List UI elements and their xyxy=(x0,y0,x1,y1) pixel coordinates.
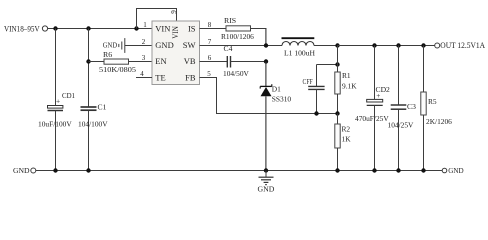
svg-text:104/25V: 104/25V xyxy=(388,120,415,129)
svg-text:FB: FB xyxy=(185,72,196,82)
capacitor CD1 10uF/100V xyxy=(38,29,75,171)
node junction SW at x266 xyxy=(264,43,268,47)
svg-text:SW: SW xyxy=(183,40,196,50)
node junction bottom rail diode/ground xyxy=(264,168,268,172)
svg-text:IS: IS xyxy=(188,23,196,33)
diode D1 SS310 xyxy=(260,84,291,170)
svg-text:5: 5 xyxy=(207,70,211,78)
svg-text:R2: R2 xyxy=(342,125,351,134)
svg-text:8: 8 xyxy=(208,21,212,29)
node junction out rail C3 xyxy=(396,43,400,47)
resistor RIS R100/1206 xyxy=(200,16,267,41)
inductor L1 100uH xyxy=(282,38,338,57)
svg-text:RIS: RIS xyxy=(224,16,236,25)
node junction bottom rail C3 xyxy=(396,168,400,172)
node junction FB divider xyxy=(335,111,339,115)
node junction bottom rail R5 xyxy=(421,168,425,172)
wire CFF top connection xyxy=(317,64,338,66)
svg-text:GND: GND xyxy=(448,166,464,175)
svg-text:9: 9 xyxy=(170,10,178,14)
ground symbol center xyxy=(258,171,275,194)
ground symbol at pin 2 (GND power port, sideways) xyxy=(103,38,152,53)
resistor R2 1K xyxy=(335,114,351,171)
node junction out rail R5 xyxy=(421,43,425,47)
svg-text:1: 1 xyxy=(143,21,147,29)
resistor R5 2K/1206 xyxy=(421,46,452,171)
svg-text:7: 7 xyxy=(208,38,212,46)
capacitor C3 104/25V xyxy=(388,46,417,171)
svg-text:2K/1206: 2K/1206 xyxy=(426,117,452,126)
resistor R1 9.1K xyxy=(335,46,357,114)
node junction top rail at CD1 xyxy=(53,26,57,30)
svg-text:R100/1206: R100/1206 xyxy=(221,32,254,41)
node junction CFF bottom on FB line xyxy=(314,111,318,115)
node junction bottom rail CD1 xyxy=(53,168,57,172)
node junction output of L1 xyxy=(335,43,339,47)
node OUT terminal xyxy=(435,41,485,50)
svg-text:2: 2 xyxy=(142,38,146,46)
wire output rail xyxy=(338,45,435,47)
svg-text:9.1K: 9.1K xyxy=(342,82,357,91)
capacitor C1 104/100V xyxy=(78,29,108,171)
svg-text:3: 3 xyxy=(142,54,146,62)
capacitor CD2 470uF/25V xyxy=(355,46,390,171)
wire pin 9 branch xyxy=(137,9,177,29)
node GND left terminal xyxy=(13,166,36,175)
svg-text:OUT 12.5V1A: OUT 12.5V1A xyxy=(440,41,485,50)
svg-text:TE: TE xyxy=(155,72,165,82)
svg-text:R5: R5 xyxy=(428,97,437,106)
svg-text:L1 100uH: L1 100uH xyxy=(284,49,316,58)
svg-text:104/100V: 104/100V xyxy=(78,120,108,129)
node junction VB-C4 at x266 xyxy=(264,59,268,63)
svg-text:1K: 1K xyxy=(342,134,352,143)
svg-text:R1: R1 xyxy=(342,71,351,80)
svg-text:GND: GND xyxy=(155,40,173,50)
svg-text:VIN: VIN xyxy=(155,23,170,33)
op-amp U1 regulator IC body xyxy=(152,21,200,85)
svg-text:VIN18–95V: VIN18–95V xyxy=(4,24,40,33)
svg-text:C4: C4 xyxy=(224,44,233,53)
svg-text:104/50V: 104/50V xyxy=(223,69,250,78)
resistor R6 510K/0805 xyxy=(89,50,153,74)
capacitor CFF xyxy=(303,65,325,114)
svg-text:6: 6 xyxy=(208,54,212,62)
node junction bottom rail CD2 xyxy=(372,168,376,172)
svg-text:CFF: CFF xyxy=(303,77,313,86)
node GND right terminal xyxy=(442,166,464,175)
svg-text:R6: R6 xyxy=(103,50,112,59)
svg-text:10uF/100V: 10uF/100V xyxy=(38,120,72,129)
capacitor C4 104/50V xyxy=(200,44,267,78)
wire pin 7 SW xyxy=(200,45,283,47)
svg-text:510K/0805: 510K/0805 xyxy=(99,65,136,74)
wire x266 down to diode xyxy=(265,62,267,87)
wire IS drop to SW node xyxy=(265,29,267,46)
svg-text:EN: EN xyxy=(155,56,166,66)
node junction out rail CD2 xyxy=(372,43,376,47)
svg-text:VIN: VIN xyxy=(171,26,180,39)
node VIN input terminal xyxy=(4,24,48,33)
svg-text:GND: GND xyxy=(13,166,30,175)
node junction bottom rail R2 xyxy=(335,168,339,172)
svg-text:GND: GND xyxy=(103,40,118,49)
svg-text:C1: C1 xyxy=(98,102,107,111)
svg-text:470uF/25V: 470uF/25V xyxy=(355,114,389,123)
node junction top rail at pin9 branch xyxy=(134,26,138,30)
svg-text:GND: GND xyxy=(258,184,275,193)
wire FB net xyxy=(200,78,338,114)
node junction R6 tap xyxy=(86,59,90,63)
svg-text:4: 4 xyxy=(140,70,144,78)
node junction CFF top xyxy=(335,62,339,66)
svg-text:+: + xyxy=(376,91,380,100)
svg-text:+: + xyxy=(56,96,60,105)
node junction bottom rail C1 xyxy=(86,168,90,172)
node junction top rail at C1 xyxy=(86,26,90,30)
svg-text:CD1: CD1 xyxy=(62,91,75,100)
wire top VIN rail xyxy=(48,28,152,30)
svg-text:C3: C3 xyxy=(407,102,416,111)
wire bottom GND rail xyxy=(36,170,442,172)
svg-text:D1: D1 xyxy=(272,85,281,94)
svg-text:VB: VB xyxy=(184,56,196,66)
svg-text:SS310: SS310 xyxy=(272,95,292,104)
wire pin 4 TE stub xyxy=(136,77,152,79)
